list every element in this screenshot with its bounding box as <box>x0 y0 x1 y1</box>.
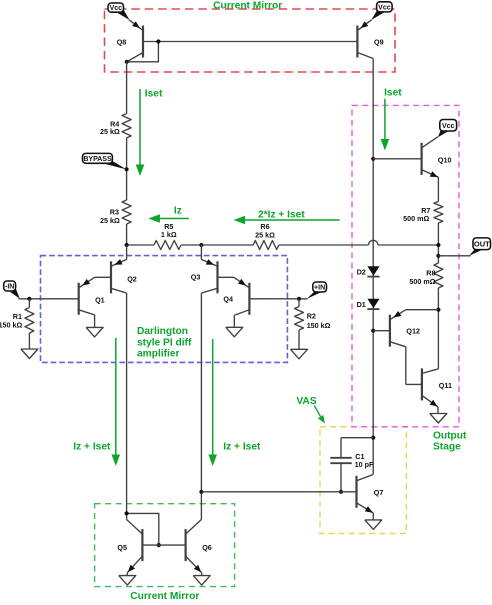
label Current Mirror (bottom) <box>130 591 199 602</box>
ground Q5 <box>119 576 136 586</box>
wire Q10 emitter to R7 <box>437 177 439 201</box>
svg-text:500 mΩ: 500 mΩ <box>403 214 429 223</box>
wire Q4 base to +IN <box>249 298 307 300</box>
svg-text:Vcc: Vcc <box>110 5 123 12</box>
svg-text:25 kΩ: 25 kΩ <box>100 127 120 136</box>
wire Q12 emitter to R8 node <box>406 309 439 311</box>
label Iset (right) <box>384 88 402 99</box>
svg-text:Q4: Q4 <box>223 294 233 303</box>
svg-text:Q5: Q5 <box>117 543 127 552</box>
current mirror region box (bottom) <box>95 504 235 587</box>
junction R2 node <box>297 297 301 301</box>
label R8 <box>409 269 435 287</box>
wire Q7 emitter to ground <box>372 513 374 520</box>
svg-text:R2: R2 <box>307 312 316 321</box>
label Iz + Iset (right) <box>223 442 261 453</box>
diff amplifier region box <box>41 256 288 363</box>
transistor Q9 <box>357 20 373 59</box>
label Q10 <box>438 155 452 164</box>
current mirror region box (top) <box>105 9 396 72</box>
output stage region box <box>352 105 459 426</box>
capacitor C1 <box>330 458 351 463</box>
junction C1 top node <box>371 436 375 440</box>
transistor Q10 <box>422 137 439 177</box>
resistor R1 <box>25 299 34 349</box>
resistor R8 <box>434 263 443 288</box>
svg-text:-IN: -IN <box>5 284 14 291</box>
wire Q8 base to Q9 base <box>143 41 357 43</box>
transistor Q12 <box>390 310 406 347</box>
wire Q12 base <box>373 330 390 332</box>
junction node B main <box>199 243 203 247</box>
wire Q10 base <box>373 158 421 160</box>
label R2 <box>307 312 331 331</box>
svg-text:25 kΩ: 25 kΩ <box>255 230 275 239</box>
wire Q1 collector to ground <box>94 315 96 328</box>
svg-text:150 kΩ: 150 kΩ <box>0 320 23 329</box>
junction Q8 base tie <box>156 39 160 43</box>
node +IN <box>307 282 327 299</box>
current arrow Iset (right) <box>381 99 390 151</box>
label Output Stage <box>433 430 467 452</box>
wire Q1 emitter to Q2 base <box>95 276 111 278</box>
node BYPASS <box>83 153 127 169</box>
resistor R6 <box>253 241 279 250</box>
junction BYPASS node <box>125 167 129 171</box>
current arrow 2*Iz + Iset <box>234 216 340 225</box>
current arrow Iz + Iset (left) <box>112 338 121 466</box>
junction Q10 base node <box>371 157 375 161</box>
diode D2 <box>367 266 379 276</box>
current arrow Iz + Iset (right) <box>208 339 217 466</box>
wire R6 to hop <box>279 244 369 246</box>
svg-text:Vcc: Vcc <box>378 4 391 11</box>
junction Q5 collector node <box>125 511 129 515</box>
junction Q8 collector node <box>125 60 129 64</box>
wire Q2 emitter to node A <box>126 245 128 260</box>
wire node B to R6 <box>201 244 253 246</box>
ground Q4 <box>226 327 243 337</box>
ground R2 <box>291 349 308 359</box>
svg-text:Q8: Q8 <box>117 38 127 47</box>
label D1 <box>357 300 366 309</box>
svg-text:Q2: Q2 <box>127 275 137 284</box>
svg-text:D1: D1 <box>357 300 366 309</box>
svg-text:VAS: VAS <box>296 396 316 407</box>
svg-text:Iz: Iz <box>174 205 182 216</box>
label Darlington style PI diff amplifier <box>137 326 192 360</box>
svg-text:Q10: Q10 <box>438 155 452 164</box>
svg-text:Iset: Iset <box>145 88 163 99</box>
label R4 <box>100 119 120 136</box>
junction OUT node <box>436 254 440 258</box>
junction R1 node <box>27 297 31 301</box>
transistor Q1 <box>79 277 95 315</box>
svg-text:Q12: Q12 <box>406 326 420 335</box>
junction node A main <box>125 243 129 247</box>
svg-text:D2: D2 <box>357 268 366 277</box>
label Q2 <box>127 275 137 284</box>
resistor R2 <box>295 299 304 350</box>
wire -IN to Q1 base <box>19 298 79 300</box>
wire Q5 base to Q6 base <box>142 544 185 546</box>
junction C1 bottom node <box>339 490 343 494</box>
svg-text:Darlington: Darlington <box>137 326 188 337</box>
svg-text:Iz + Iset: Iz + Iset <box>73 442 111 453</box>
svg-text:Output: Output <box>433 430 467 441</box>
label Q6 <box>202 543 212 552</box>
label Q11 <box>439 381 452 390</box>
label Q7 <box>374 488 384 497</box>
transistor Q2 <box>111 259 127 293</box>
power Vcc (Q10) <box>438 120 457 138</box>
label Iset (left) <box>145 88 163 99</box>
svg-text:Q6: Q6 <box>202 543 212 552</box>
svg-text:OUT: OUT <box>474 239 490 248</box>
label R6 <box>255 222 275 239</box>
svg-text:1 kΩ: 1 kΩ <box>161 230 177 239</box>
svg-text:Q11: Q11 <box>439 381 452 390</box>
transistor Q6 <box>186 520 202 573</box>
svg-text:Q9: Q9 <box>374 38 384 47</box>
wire R3 to main node <box>126 224 128 245</box>
wire Q9 collector down (bias chain) <box>372 59 374 475</box>
wire C1 top tap <box>341 438 373 458</box>
label Q4 <box>223 294 233 303</box>
ground Q6 <box>193 576 210 586</box>
svg-text:Current Mirror: Current Mirror <box>130 591 199 600</box>
label Q8 <box>117 38 127 47</box>
label Q3 <box>191 273 201 282</box>
wire Q6 emitter to ground <box>201 573 203 576</box>
junction Q5 base tie <box>157 543 161 547</box>
wire Q5 emitter to ground <box>126 573 128 576</box>
wire Q11 base <box>406 383 422 385</box>
power Vcc (Q8) <box>108 3 130 20</box>
wire Q4 collector to ground <box>233 315 235 327</box>
svg-text:amplifier: amplifier <box>137 349 179 360</box>
wire OUT <box>438 255 470 257</box>
resistor R3 <box>122 200 131 224</box>
svg-text:500 mΩ: 500 mΩ <box>409 277 435 286</box>
label Iz <box>174 205 182 216</box>
resistor R7 <box>434 201 443 223</box>
power Vcc (Q9) <box>371 2 392 20</box>
transistor Q7 <box>357 475 374 514</box>
label Iz + Iset (left) <box>73 442 111 453</box>
wire hop to R7 node <box>378 244 439 246</box>
transistor Q11 <box>422 368 439 407</box>
VAS pointer arrow <box>314 406 325 424</box>
svg-text:2*Iz + Iset: 2*Iz + Iset <box>258 209 305 220</box>
label 2*Iz + Iset <box>258 209 305 220</box>
ground R1 <box>21 349 38 359</box>
svg-text:10 pF: 10 pF <box>355 460 374 469</box>
transistor Q5 <box>127 520 143 573</box>
label R5 <box>161 222 177 239</box>
svg-text:Stage: Stage <box>433 442 461 453</box>
label VAS <box>296 396 316 407</box>
junction R7 bottom node <box>436 243 440 247</box>
diode D1 <box>367 299 379 309</box>
wire Q2 collector down <box>126 293 128 520</box>
svg-text:+IN: +IN <box>314 285 325 292</box>
label Q1 <box>95 295 105 304</box>
svg-text:Current Mirror: Current Mirror <box>213 0 282 11</box>
current arrow Iz <box>148 214 189 223</box>
wire Q3 emitter to node B <box>200 245 202 260</box>
ground Q1 <box>86 327 103 337</box>
label Q12 <box>406 326 420 335</box>
wire Q7 base <box>201 491 356 493</box>
transistor Q4 <box>234 277 250 315</box>
junction Q7 base wire node <box>199 490 203 494</box>
svg-text:Q7: Q7 <box>374 488 384 497</box>
label D2 <box>357 268 366 277</box>
wire Q11 emitter to ground <box>437 407 439 414</box>
svg-text:style PI diff: style PI diff <box>137 337 192 348</box>
wire hop over vertical <box>369 240 378 245</box>
svg-text:BYPASS: BYPASS <box>83 156 112 163</box>
node OUT <box>469 238 491 256</box>
svg-text:Iz + Iset: Iz + Iset <box>223 442 261 453</box>
wire Q12 collector to Q11 base <box>405 347 407 385</box>
ground Q7 <box>365 520 382 530</box>
VAS region box <box>320 427 406 534</box>
label Current Mirror (top) <box>213 0 282 11</box>
transistor Q8 <box>127 20 143 62</box>
wire Q8 base-collector tie <box>127 42 159 62</box>
junction Q12 base node <box>371 329 375 333</box>
label C1 <box>355 452 374 469</box>
wire Q3 collector down <box>200 293 202 520</box>
svg-text:Iset: Iset <box>384 88 402 99</box>
svg-text:Q1: Q1 <box>95 295 105 304</box>
wire R4 to R3 <box>126 138 128 200</box>
svg-text:Q3: Q3 <box>191 273 201 282</box>
transistor Q3 <box>201 259 217 293</box>
wire R8 to Q11 collector <box>437 288 439 369</box>
wire Q5 collector tie <box>127 513 159 545</box>
current arrow Iset (left) <box>136 89 145 176</box>
svg-text:150 kΩ: 150 kΩ <box>307 321 331 330</box>
wire C1 bottom to Q7 base wire <box>340 463 342 492</box>
resistor R5 <box>154 241 181 250</box>
wire R7 to OUT node <box>437 223 439 263</box>
label R3 <box>100 208 120 226</box>
wire Q8 collector down to R4 <box>126 62 128 114</box>
junction R8 bottom node <box>436 308 440 312</box>
node -IN <box>4 281 20 299</box>
svg-text:Vcc: Vcc <box>442 123 455 130</box>
label R7 <box>403 206 430 223</box>
resistor R4 <box>122 114 131 138</box>
wire R5 to node B <box>181 244 201 246</box>
wire main node A segment <box>127 244 154 246</box>
label R1 <box>0 312 23 329</box>
wire Q3 base to Q4 emitter <box>218 276 234 278</box>
label Q5 <box>117 543 127 552</box>
svg-text:25 kΩ: 25 kΩ <box>100 216 120 225</box>
label Q9 <box>374 38 384 47</box>
ground Q11 <box>430 414 447 424</box>
